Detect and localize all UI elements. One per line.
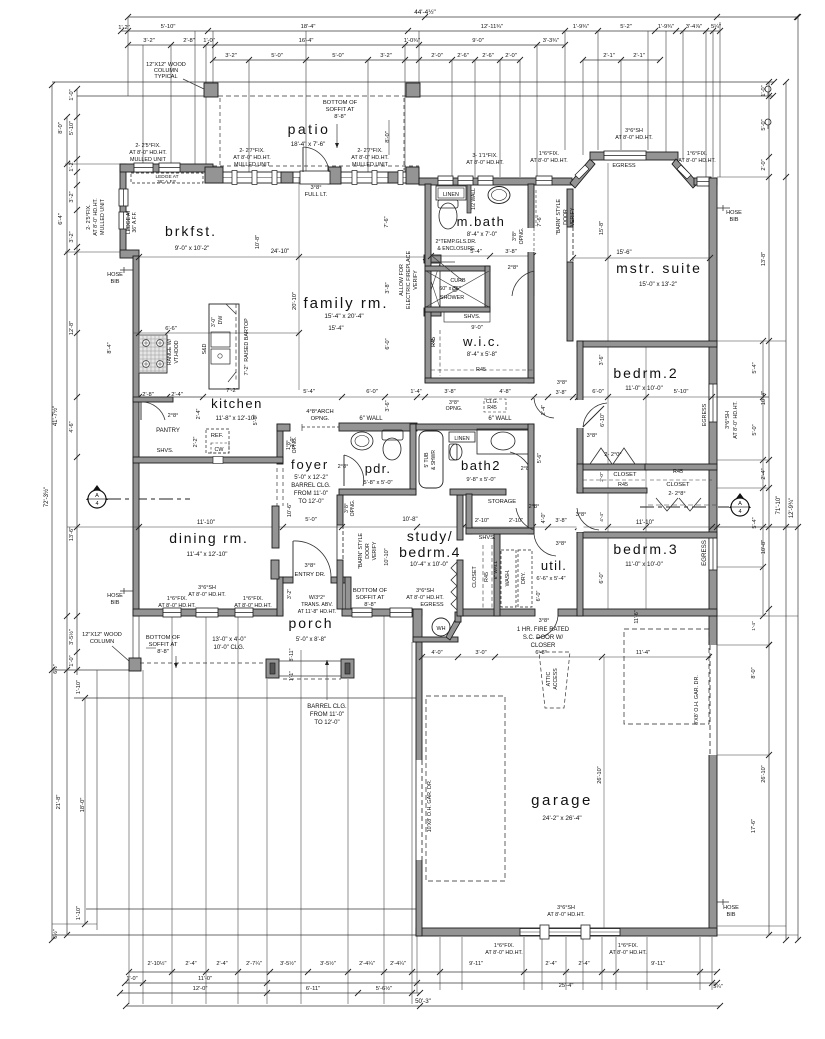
mstr suite bay window walls [570, 159, 595, 188]
svg-text:12"X12" WOOD: 12"X12" WOOD [82, 632, 122, 638]
ledge at 36 AFF strip under brkfst wall [131, 173, 203, 183]
porch-dining soffit dashes [140, 662, 266, 664]
svg-text:5'-0": 5'-0" [271, 53, 283, 59]
svg-text:5'-0": 5'-0" [332, 53, 344, 59]
svg-text:VERIFY: VERIFY [570, 207, 576, 226]
svg-text:1'-4": 1'-4" [751, 621, 757, 631]
svg-text:8'-8": 8'-8" [334, 114, 346, 120]
bath2 door arc [510, 452, 532, 474]
top extension lines [127, 17, 129, 96]
svg-text:8'X8' O.H. GAR. DR.: 8'X8' O.H. GAR. DR. [694, 675, 700, 725]
svg-text:6" WALL: 6" WALL [488, 416, 512, 422]
svg-text:R45: R45 [487, 405, 497, 411]
svg-text:5'-4": 5'-4" [303, 389, 315, 395]
svg-text:foyer: foyer [291, 457, 329, 472]
svg-text:family rm.: family rm. [304, 295, 389, 312]
svg-text:6'-6": 6'-6" [165, 326, 177, 332]
bath2 hall east wall [528, 424, 534, 534]
svg-text:6'-0": 6'-0" [366, 389, 378, 395]
svg-text:SHOWER: SHOWER [440, 295, 464, 301]
svg-text:3°8°: 3°8° [576, 512, 587, 518]
svg-text:3'-2": 3'-2" [287, 589, 293, 599]
attic access dashed [539, 652, 570, 708]
svg-text:BARREL CLG.: BARREL CLG. [291, 483, 331, 489]
svg-text:3'-8": 3'-8" [505, 249, 517, 255]
svg-text:CLOSER: CLOSER [531, 643, 556, 649]
mstr west wall with barn door [567, 189, 573, 227]
svg-text:10'-8": 10'-8" [761, 540, 767, 554]
svg-text:26'-10": 26'-10" [761, 765, 767, 782]
svg-text:5'-0" x 12'-2": 5'-0" x 12'-2" [294, 475, 328, 481]
section cut dash line left [107, 498, 190, 500]
window brkfst north 1 [134, 163, 153, 172]
left overall dimension line 72'-3 1/2" [51, 85, 53, 940]
svg-text:RAISED BARTOP: RAISED BARTOP [244, 318, 250, 362]
svg-text:WH: WH [437, 626, 446, 632]
windows study south [352, 608, 372, 617]
porch strip edge lines at dining SW [132, 616, 134, 658]
svg-text:11'-0": 11'-0" [198, 976, 212, 982]
svg-text:AT 8'-0" HD.HT.: AT 8'-0" HD.HT. [733, 401, 739, 439]
svg-text:13'-6": 13'-6" [69, 527, 75, 541]
svg-text:15'-4" x 20'-4": 15'-4" x 20'-4" [324, 313, 363, 320]
svg-text:3°8°: 3°8° [539, 618, 550, 624]
svg-text:EGRESS: EGRESS [702, 403, 708, 426]
svg-text:3'-0": 3'-0" [211, 317, 217, 327]
garage west door opening 10x8 [416, 760, 423, 860]
svg-text:PANTRY: PANTRY [156, 428, 180, 434]
bath2 vanity [477, 429, 529, 454]
svg-text:TO 12'-0": TO 12'-0" [314, 720, 339, 726]
left dim 18'-0" [84, 698, 86, 924]
bottom dimension line row 3 [120, 992, 420, 994]
svg-text:10'-10": 10'-10" [384, 548, 390, 565]
svg-text:REF.: REF. [211, 433, 224, 439]
svg-text:1°6°FIX.: 1°6°FIX. [243, 596, 263, 602]
svg-text:2'-0": 2'-0" [505, 53, 517, 59]
svg-text:2°8°: 2°8° [168, 413, 179, 419]
svg-text:FROM 11'-0": FROM 11'-0" [294, 491, 328, 497]
svg-text:36" A.F.F.: 36" A.F.F. [132, 212, 138, 233]
svg-text:FROM 11'-0": FROM 11'-0" [310, 712, 344, 718]
bath2 south wall [450, 489, 506, 495]
svg-text:3'-2": 3'-2" [225, 53, 237, 59]
pantry door arc [141, 402, 165, 420]
svg-text:3°8°: 3°8° [304, 563, 315, 569]
svg-text:18'-4": 18'-4" [301, 24, 316, 30]
top dimension line row 4 [213, 59, 520, 61]
svg-text:4: 4 [95, 501, 98, 507]
svg-text:18'-4" x 7'-6": 18'-4" x 7'-6" [291, 141, 326, 148]
pdr fixtures sink [351, 432, 373, 450]
svg-text:5'-10": 5'-10" [161, 24, 176, 30]
svg-text:OPNG.: OPNG. [350, 500, 356, 517]
right dimension line x786 71'-10" [785, 82, 787, 940]
svg-text:AT 8'-0" HD.HT.: AT 8'-0" HD.HT. [234, 603, 272, 609]
svg-text:WASH.: WASH. [505, 570, 511, 587]
svg-text:3'-8": 3'-8" [385, 282, 391, 293]
bedrm3 closet right [645, 464, 717, 470]
svg-text:24'-10": 24'-10" [271, 249, 290, 255]
svg-text:AT 8'-0" HD.HT.: AT 8'-0" HD.HT. [233, 155, 271, 161]
svg-text:DW: DW [218, 316, 224, 325]
svg-text:CLOSET: CLOSET [613, 472, 637, 478]
svg-text:2'-4": 2'-4" [185, 961, 196, 967]
svg-text:44'-4½": 44'-4½" [414, 8, 436, 16]
porch west wall [277, 577, 283, 616]
svg-text:AT 8'-0" HD.HT.: AT 8'-0" HD.HT. [351, 155, 389, 161]
svg-text:MULLED UNIT: MULLED UNIT [130, 157, 167, 163]
svg-text:HOSE: HOSE [726, 210, 742, 216]
svg-text:bedrm.3: bedrm.3 [613, 541, 678, 557]
svg-text:1'-4": 1'-4" [410, 389, 421, 395]
windows garage south [520, 929, 620, 936]
overall width dimension line 44'-4 1/2" [128, 16, 797, 18]
kitchen island with sink [209, 304, 239, 389]
m.bath west wall [425, 184, 431, 382]
svg-text:2'-4": 2'-4" [545, 961, 556, 967]
svg-text:6'-4": 6'-4" [58, 213, 64, 225]
svg-text:HOSE: HOSE [107, 593, 123, 599]
svg-text:1'-9¾": 1'-9¾" [658, 24, 674, 30]
exterior wall west jog [120, 250, 139, 258]
svg-text:4'-6": 4'-6" [69, 421, 75, 432]
svg-text:5'-0": 5'-0" [305, 517, 317, 523]
m.bath east wall [528, 184, 534, 383]
symbol circle top right beam [765, 86, 771, 92]
svg-text:1°6°FIX.: 1°6°FIX. [687, 151, 707, 157]
svg-text:3°8°: 3°8° [587, 433, 598, 439]
svg-text:6'-0": 6'-0" [385, 338, 391, 349]
svg-text:4'-4": 4'-4" [599, 512, 605, 522]
svg-text:ALLOW FOR: ALLOW FOR [399, 264, 405, 296]
tick marks right beam ends [771, 79, 777, 85]
svg-text:15'-0" x 13'-2": 15'-0" x 13'-2" [639, 281, 677, 288]
right dimension line x769 [768, 82, 770, 935]
svg-text:2'-0": 2'-0" [431, 53, 443, 59]
svg-text:5'-4": 5'-4" [752, 362, 758, 373]
shower glass door diagonal [432, 256, 463, 281]
exterior wall patio-facing: white window band [205, 172, 419, 183]
svg-text:m.bath: m.bath [457, 214, 506, 229]
arch opening dashes [301, 424, 303, 431]
svg-text:AT 11'-8" HD.HT.: AT 11'-8" HD.HT. [298, 609, 337, 615]
foyer-dining opening dashed [282, 468, 284, 506]
svg-text:4'-0": 4'-0" [541, 513, 547, 524]
svg-text:bedrm.2: bedrm.2 [613, 365, 678, 381]
refrigerator dashed box [206, 429, 229, 453]
svg-text:OPNG.: OPNG. [519, 228, 525, 245]
window brkfst north 2 [159, 163, 180, 172]
svg-text:S&D: S&D [202, 343, 208, 354]
bedrm2 door arc [577, 400, 584, 428]
svg-text:2°8°: 2°8° [338, 464, 349, 470]
windows brkfst west wall [119, 189, 128, 206]
svg-text:10'-8": 10'-8" [402, 517, 417, 523]
svg-text:SOFFIT AT: SOFFIT AT [149, 642, 178, 648]
wic south wall [425, 378, 534, 383]
garage top dim line [422, 656, 709, 658]
svg-text:41'-7½": 41'-7½" [52, 406, 59, 426]
garage right bay dashed [624, 629, 709, 724]
svg-text:5'-0": 5'-0" [752, 424, 758, 435]
svg-text:porch: porch [288, 615, 333, 631]
svg-text:4: 4 [738, 509, 741, 515]
svg-text:2°8°: 2°8° [529, 504, 540, 510]
svg-text:10'X8' O.H. GAR. DR.: 10'X8' O.H. GAR. DR. [427, 780, 433, 833]
svg-text:1'-0¾": 1'-0¾" [404, 38, 420, 44]
svg-text:36" A.F.F.: 36" A.F.F. [157, 179, 177, 185]
svg-text:3'-3¾": 3'-3¾" [543, 38, 559, 44]
pdr south wall [339, 489, 416, 495]
exterior wall garage south [416, 928, 717, 936]
svg-text:AT 8'-0" HD.HT.: AT 8'-0" HD.HT. [406, 595, 444, 601]
svg-text:EGRESS: EGRESS [612, 163, 636, 169]
svg-text:"BARN" STYLE: "BARN" STYLE [556, 198, 562, 235]
svg-text:BIB: BIB [110, 279, 119, 285]
svg-text:6'-10": 6'-10" [600, 413, 606, 427]
svg-text:bedrm.4: bedrm.4 [399, 544, 461, 560]
svg-text:2'-7¼": 2'-7¼" [246, 961, 262, 967]
svg-text:8'-4" x 5'-8": 8'-4" x 5'-8" [467, 352, 497, 358]
svg-text:mstr. suite: mstr. suite [616, 260, 702, 276]
pantry walls [133, 397, 173, 402]
svg-text:3'-8": 3'-8" [556, 390, 567, 396]
m.bath toilet [438, 200, 458, 208]
svg-text:R45: R45 [618, 482, 628, 488]
exterior wall west main [133, 256, 139, 616]
svg-text:9'-11": 9'-11" [651, 961, 665, 967]
svg-text:TO 12'-0": TO 12'-0" [298, 499, 323, 505]
svg-text:1°6°FIX.: 1°6°FIX. [618, 943, 638, 949]
bottom dimension line row 1 [129, 971, 717, 973]
svg-text:AT 8'-0" HD.HT.: AT 8'-0" HD.HT. [188, 592, 226, 598]
svg-text:AT 8'-0" HD.HT.: AT 8'-0" HD.HT. [129, 150, 167, 156]
exterior wall mstr north right segment [694, 178, 717, 185]
svg-text:13'-8": 13'-8" [761, 252, 767, 266]
svg-text:3'-0": 3'-0" [475, 650, 486, 656]
kitchen east wall [277, 424, 283, 464]
svg-text:6'-0": 6'-0" [592, 389, 604, 395]
svg-text:SHVS.: SHVS. [464, 314, 481, 320]
svg-text:2'-4¼": 2'-4¼" [390, 961, 406, 967]
window 1'6 FIX left of bay [536, 176, 552, 185]
wh alcove walls [413, 609, 422, 642]
svg-text:TYPICAL: TYPICAL [154, 74, 177, 80]
svg-text:OPNG.: OPNG. [292, 437, 298, 454]
svg-text:LINEN: LINEN [454, 436, 470, 442]
exterior wall garage west [416, 642, 422, 936]
svg-text:AT 8'-0" HD.HT.: AT 8'-0" HD.HT. [609, 950, 647, 956]
svg-text:dining rm.: dining rm. [169, 530, 248, 546]
svg-text:2- 2'5°FIX.: 2- 2'5°FIX. [86, 204, 92, 229]
svg-text:11'-0" x 10'-0": 11'-0" x 10'-0" [625, 561, 663, 568]
right horizontal extension lines [717, 176, 769, 178]
svg-text:2'-10": 2'-10" [475, 518, 489, 524]
svg-text:6'-11": 6'-11" [306, 986, 320, 992]
foyer south wall with entry door [283, 577, 293, 583]
svg-text:6½": 6½" [52, 664, 59, 673]
section cut dash line right [640, 506, 729, 508]
window bedrm3 egress east wall [709, 534, 717, 570]
garage left bay dashed [426, 696, 505, 881]
bath2 toilet [449, 444, 457, 460]
svg-text:3°8°: 3°8° [557, 380, 567, 386]
svg-text:SHVS.: SHVS. [157, 448, 174, 454]
svg-text:9'-0": 9'-0" [472, 38, 484, 44]
svg-text:2'-4¼": 2'-4¼" [359, 961, 375, 967]
svg-text:1'-10": 1'-10" [76, 680, 82, 694]
svg-text:util.: util. [541, 558, 567, 573]
windows m.bath north 3-1'1 FIX [438, 176, 453, 185]
svg-text:11'-10": 11'-10" [636, 520, 654, 526]
svg-text:5'-0": 5'-0" [761, 119, 767, 130]
door 3'8 full lt with outswing arc to patio [300, 171, 330, 184]
svg-text:9'-8" x 5'-0": 9'-8" x 5'-0" [466, 477, 495, 483]
svg-text:8'-11": 8'-11" [289, 648, 295, 661]
svg-text:1°6°FIX.: 1°6°FIX. [167, 596, 187, 602]
svg-text:DOOR: DOOR [365, 543, 371, 559]
bedrm2 closet left [577, 464, 647, 470]
svg-text:6'-6" x 5'-4": 6'-6" x 5'-4" [536, 576, 565, 582]
window mullion ticks patio wall [232, 171, 237, 185]
dim line 6'-6 kitchen [133, 332, 299, 334]
svg-text:A: A [95, 493, 99, 499]
svg-text:7'-2": 7'-2" [244, 365, 250, 376]
svg-text:bath2: bath2 [461, 458, 501, 473]
left horizontal extension lines [65, 163, 120, 165]
right dimension line x798 12'-9 3/4" [797, 17, 799, 940]
svg-text:COLUMN: COLUMN [90, 639, 114, 645]
svg-text:2'-1": 2'-1" [633, 53, 645, 59]
porch east wall [345, 577, 351, 616]
section marker A-4 left [86, 485, 108, 500]
foyer north wall / 6 wall [339, 423, 417, 431]
svg-text:3'-5½": 3'-5½" [280, 960, 296, 967]
svg-text:BIB: BIB [110, 600, 119, 606]
svg-text:6" WALL: 6" WALL [359, 416, 383, 422]
svg-text:11'-4": 11'-4" [636, 650, 650, 656]
svg-text:2'-4": 2'-4" [761, 468, 767, 479]
svg-text:15'-4": 15'-4" [328, 326, 343, 332]
svg-text:AT 8'-0" HD.HT.: AT 8'-0" HD.HT. [485, 950, 523, 956]
svg-text:3'-5½": 3'-5½" [68, 629, 75, 645]
svg-text:MULLED UNIT: MULLED UNIT [234, 162, 271, 168]
svg-text:8'-4": 8'-4" [107, 342, 113, 353]
svg-text:2'-6": 2'-6" [482, 53, 494, 59]
svg-text:HOSE: HOSE [723, 905, 739, 911]
study closet doors zigzag [451, 562, 457, 586]
left dimension line 2 [66, 117, 68, 935]
bedrm2 north wall [577, 341, 717, 347]
svg-text:72'-3½": 72'-3½" [43, 487, 50, 507]
svg-text:VERIFY: VERIFY [372, 541, 378, 560]
svg-text:11'-8" x 12'-10": 11'-8" x 12'-10" [215, 415, 256, 422]
svg-text:3°6°SH: 3°6°SH [198, 585, 216, 591]
svg-text:1'-0": 1'-0" [126, 976, 137, 982]
svg-text:BIB: BIB [729, 217, 738, 223]
svg-text:AT 8'-0" HD.HT.: AT 8'-0" HD.HT. [466, 160, 504, 166]
bottom overall dimension 50'-3" [126, 1005, 720, 1007]
svg-text:6'-8": 6'-8" [535, 650, 546, 656]
svg-text:2'-4": 2'-4" [578, 961, 589, 967]
svg-text:11'-0" x 10'-0": 11'-0" x 10'-0" [625, 385, 663, 392]
svg-text:2'-6": 2'-6" [457, 53, 469, 59]
bedrm3 north wall [577, 532, 717, 538]
svg-text:2- 2°0°: 2- 2°0° [604, 452, 621, 458]
svg-text:MULLED UNIT: MULLED UNIT [352, 162, 389, 168]
svg-text:4'-8": 4'-8" [499, 389, 510, 395]
dim line 24'-10 through family rm [139, 256, 426, 258]
svg-text:VT.HOOD: VT.HOOD [174, 340, 180, 363]
svg-text:20'-10": 20'-10" [292, 292, 298, 310]
storage west wall [466, 494, 472, 534]
svg-text:TRANS. ABV.: TRANS. ABV. [301, 602, 333, 608]
window bedrm2 egress east wall [709, 384, 717, 422]
svg-text:SOFFIT AT: SOFFIT AT [356, 595, 385, 601]
svg-text:A: A [738, 501, 742, 507]
svg-text:3°6°SH: 3°6°SH [557, 905, 575, 911]
left dimension line 3 [76, 89, 78, 675]
svg-text:9'-11": 9'-11" [469, 961, 483, 967]
wood column dining SW corner [129, 658, 141, 671]
svg-text:4°8°ARCH: 4°8°ARCH [306, 409, 334, 415]
svg-text:8'-0": 8'-0" [58, 122, 64, 134]
bedrm2 closet bifold doors [590, 448, 612, 464]
pdr-bath2 divider wall [410, 424, 416, 495]
svg-text:12'-8": 12'-8" [69, 321, 75, 335]
fireplace [424, 255, 441, 263]
svg-text:13'-0" x 4'-0": 13'-0" x 4'-0" [212, 637, 246, 643]
wic door arc from mstr [512, 271, 534, 296]
svg-text:7'-6": 7'-6" [537, 215, 543, 226]
svg-text:2'-8": 2'-8" [183, 38, 195, 44]
svg-text:5'-6": 5'-6" [537, 453, 543, 463]
bedrm2 west wall [577, 341, 583, 470]
svg-text:10'-0" CLG.: 10'-0" CLG. [214, 645, 245, 651]
svg-text:BOTTOM OF: BOTTOM OF [323, 100, 358, 106]
exterior wall east [709, 178, 717, 936]
shower-wic wall [425, 307, 490, 312]
svg-text:1'-0": 1'-0" [69, 655, 75, 666]
exterior wall dining south [133, 609, 283, 616]
storage south wall [466, 528, 534, 534]
svg-text:STORAGE: STORAGE [488, 499, 516, 505]
svg-text:OPNG.: OPNG. [446, 406, 463, 412]
svg-text:OPNG.: OPNG. [311, 416, 330, 422]
svg-text:3'-4⅞": 3'-4⅞" [686, 24, 702, 30]
kitchen-dining wall [133, 457, 283, 463]
garage east door opening 8x8 [709, 645, 718, 755]
patio soffit dashed outline [219, 98, 221, 170]
svg-text:18'-0": 18'-0" [80, 798, 86, 813]
svg-text:8'-8": 8'-8" [364, 602, 376, 608]
svg-text:S.C. DOOR W/: S.C. DOOR W/ [523, 635, 564, 641]
wh water heater [432, 618, 450, 636]
svg-text:3'-2": 3'-2" [69, 191, 75, 202]
m.bath vanity sink [488, 187, 510, 204]
m.bath east door opening 3'8 [528, 228, 535, 252]
svg-text:3'-8": 3'-8" [555, 518, 566, 524]
svg-text:CLOSET: CLOSET [472, 566, 478, 588]
bath2 tub [419, 431, 443, 488]
bottom dimension line row 2 [125, 982, 717, 984]
svg-text:10'-6": 10'-6" [287, 503, 293, 517]
svg-text:2'-0": 2'-0" [599, 472, 605, 482]
svg-text:8'-0": 8'-0" [751, 667, 757, 678]
bath2 linen [449, 432, 475, 442]
svg-text:8'-8": 8'-8" [157, 649, 169, 655]
